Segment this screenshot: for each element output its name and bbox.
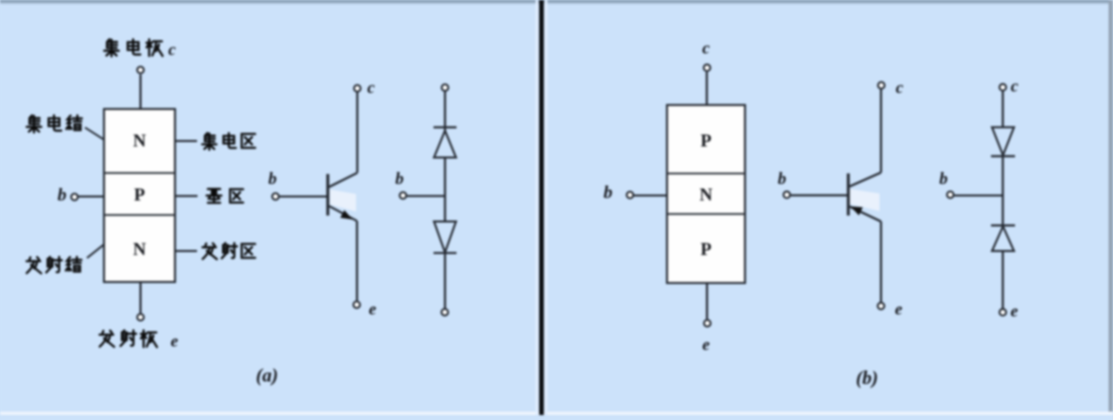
svg-text:e: e bbox=[369, 300, 377, 319]
svg-text:c: c bbox=[168, 40, 176, 59]
svg-text:b: b bbox=[58, 185, 67, 205]
svg-text:e: e bbox=[702, 335, 710, 354]
svg-text:e: e bbox=[1011, 302, 1019, 321]
svg-text:P: P bbox=[701, 239, 712, 259]
svg-text:c: c bbox=[702, 39, 710, 58]
svg-text:P: P bbox=[701, 131, 712, 151]
svg-text:N: N bbox=[700, 185, 713, 205]
svg-text:e: e bbox=[895, 300, 903, 319]
svg-text:(b): (b) bbox=[856, 368, 878, 389]
svg-text:b: b bbox=[778, 169, 787, 188]
svg-text:(a): (a) bbox=[256, 366, 278, 387]
svg-text:c: c bbox=[896, 78, 904, 97]
svg-text:b: b bbox=[268, 169, 277, 188]
svg-text:N: N bbox=[133, 239, 146, 259]
svg-text:c: c bbox=[367, 78, 375, 97]
svg-text:b: b bbox=[939, 169, 948, 188]
svg-text:N: N bbox=[133, 131, 146, 151]
svg-text:P: P bbox=[134, 185, 145, 205]
svg-text:c: c bbox=[1011, 77, 1019, 96]
svg-text:b: b bbox=[395, 169, 404, 188]
svg-text:e: e bbox=[171, 332, 179, 351]
svg-text:b: b bbox=[604, 182, 613, 202]
